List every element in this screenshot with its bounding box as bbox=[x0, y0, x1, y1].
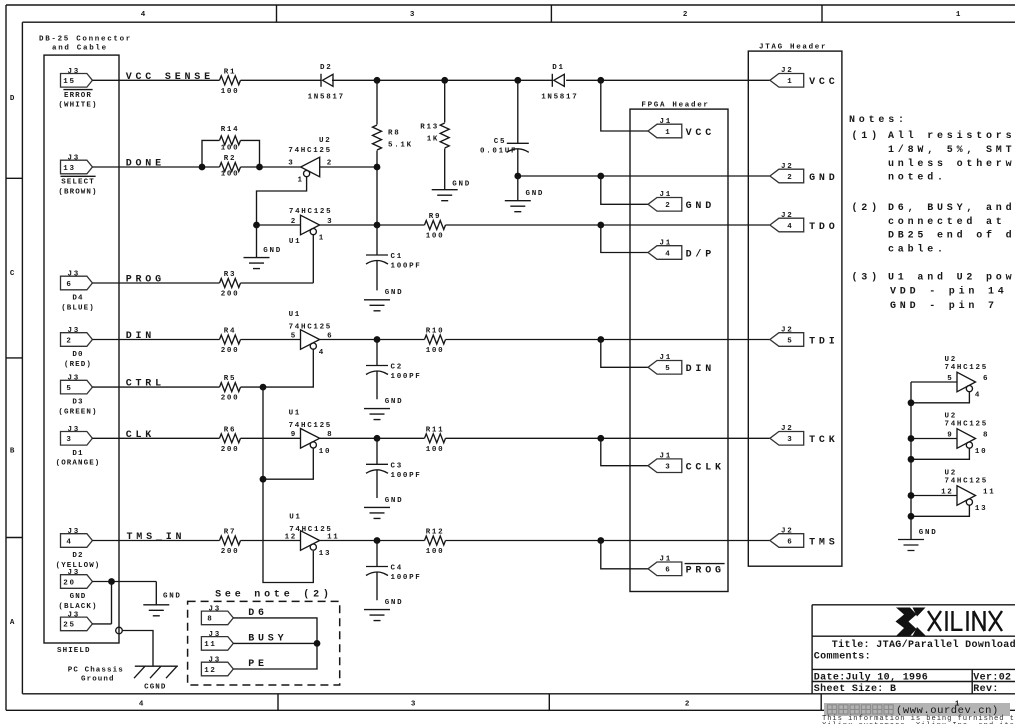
svg-text:4: 4 bbox=[319, 349, 325, 357]
svg-text:12: 12 bbox=[285, 533, 297, 541]
svg-text:9: 9 bbox=[947, 431, 953, 439]
svg-text:200: 200 bbox=[221, 548, 240, 556]
wire U2 spare rail bbox=[911, 382, 957, 540]
watermark band bbox=[824, 703, 1010, 717]
connector pin J1 pin 6 PROG bbox=[648, 556, 725, 577]
svg-text:2: 2 bbox=[665, 202, 671, 210]
wire CLK output row to TCK bbox=[320, 437, 770, 439]
border zone letters left bbox=[10, 95, 16, 627]
label FPGA Header bbox=[641, 102, 709, 110]
net label DONE bbox=[126, 159, 165, 170]
wire GND rail bbox=[518, 175, 770, 177]
op-amp U2 spare buffer 74HC125 gate 12/11/13 bbox=[941, 470, 995, 514]
resistor R7 bbox=[220, 529, 241, 557]
op-amp U1 buffer 74HC125 PROG gate 2/3/1 bbox=[289, 208, 333, 246]
wire GND drop to FPGA J1 pin2 bbox=[601, 176, 648, 204]
svg-text:VCC SENSE: VCC SENSE bbox=[126, 72, 214, 83]
svg-text:R2: R2 bbox=[224, 155, 236, 163]
svg-text:12: 12 bbox=[204, 667, 216, 675]
net label VCC_SENSE bbox=[126, 72, 214, 83]
svg-text:See note (2): See note (2) bbox=[215, 589, 333, 601]
svg-text:SHIELD: SHIELD bbox=[57, 647, 91, 655]
svg-text:3: 3 bbox=[411, 701, 417, 709]
connector pin J3 pin 15 bbox=[58, 68, 97, 110]
svg-text:connected at the: connected at the bbox=[888, 216, 1015, 228]
node BUSY junction bbox=[314, 640, 321, 647]
svg-text:5: 5 bbox=[291, 332, 297, 340]
capacitor C5 0.01UF bbox=[480, 80, 529, 176]
svg-text:GND: GND bbox=[385, 599, 404, 607]
svg-text:10: 10 bbox=[975, 448, 987, 456]
svg-text:74HC125: 74HC125 bbox=[289, 526, 332, 534]
resistor R11 bbox=[425, 426, 446, 454]
wire enable bus vertical bbox=[263, 387, 313, 582]
wire U1 PROG input from gnd node bbox=[257, 224, 301, 226]
svg-text:U1: U1 bbox=[289, 311, 301, 319]
svg-text:TDO: TDO bbox=[809, 222, 838, 233]
svg-text:GND: GND bbox=[686, 201, 715, 212]
svg-text:8: 8 bbox=[207, 616, 213, 624]
connector pin J3 pin 25 bbox=[61, 611, 93, 630]
svg-text:R8: R8 bbox=[388, 130, 400, 138]
svg-text:13: 13 bbox=[63, 165, 75, 173]
svg-text:U1: U1 bbox=[289, 410, 301, 418]
wire PROG row (R3 to U1 enable riser) bbox=[92, 235, 313, 283]
diode D1 1N5817 bbox=[541, 64, 578, 101]
svg-text:Comments:: Comments: bbox=[814, 651, 871, 662]
node J3 pin20 junction bbox=[108, 578, 115, 585]
svg-text:Notes:: Notes: bbox=[849, 115, 908, 126]
svg-text:2: 2 bbox=[66, 337, 72, 345]
capacitor C1 100PF bbox=[366, 225, 422, 290]
node x377 DONE bbox=[374, 164, 381, 171]
op-amp U2 spare buffer 74HC125 gate 9/8/10 bbox=[945, 413, 990, 457]
wire U1 CLK enable to bus bbox=[263, 448, 313, 479]
border zone labels top bbox=[141, 11, 962, 19]
svg-text:PROG: PROG bbox=[686, 566, 725, 577]
svg-text:DIN: DIN bbox=[686, 364, 715, 375]
wire TDO drop to FPGA J1 pin4 D/P bbox=[601, 225, 648, 253]
ground below R13 bbox=[432, 181, 471, 201]
svg-text:1: 1 bbox=[298, 177, 304, 185]
svg-text:GND: GND bbox=[809, 173, 838, 184]
svg-text:GND: GND bbox=[385, 289, 404, 297]
svg-text:0.01UF: 0.01UF bbox=[480, 148, 517, 156]
svg-text:1N5817: 1N5817 bbox=[541, 93, 578, 101]
label CGND bbox=[144, 684, 166, 692]
wire DIN output row to TDI bbox=[320, 339, 770, 341]
svg-text:GND: GND bbox=[919, 529, 938, 537]
svg-text:5: 5 bbox=[66, 385, 72, 393]
resistor R1 bbox=[220, 68, 241, 96]
label SHIELD bbox=[57, 647, 91, 655]
svg-text:U2: U2 bbox=[319, 137, 331, 145]
svg-text:200: 200 bbox=[221, 347, 240, 355]
svg-text:100: 100 bbox=[426, 233, 445, 241]
title block bbox=[812, 605, 1015, 694]
svg-text:1: 1 bbox=[319, 235, 325, 243]
connector pin J2 pin 2 GND bbox=[770, 163, 839, 184]
svg-text:PC Chassis: PC Chassis bbox=[68, 667, 124, 675]
svg-text:1N5817: 1N5817 bbox=[308, 94, 345, 102]
svg-text:DONE: DONE bbox=[126, 159, 165, 170]
resistor R8 bbox=[373, 80, 413, 167]
svg-text:R14: R14 bbox=[221, 126, 240, 134]
svg-text:SELECT: SELECT bbox=[61, 179, 95, 187]
svg-text:3: 3 bbox=[410, 11, 416, 19]
svg-text:D0: D0 bbox=[72, 351, 83, 359]
wire TMS drop to FPGA J1 pin6 PROG bbox=[601, 541, 648, 569]
svg-text:74HC125: 74HC125 bbox=[289, 422, 332, 430]
svg-text:D3: D3 bbox=[72, 399, 83, 407]
svg-text:A: A bbox=[10, 619, 16, 627]
svg-text:D6, BUSY, and PE: D6, BUSY, and PE bbox=[888, 202, 1015, 214]
svg-text:GND: GND bbox=[452, 181, 471, 189]
svg-text:3: 3 bbox=[787, 436, 793, 444]
svg-text:100: 100 bbox=[426, 446, 445, 454]
net label DIN bbox=[126, 331, 155, 342]
svg-text:(ORANGE): (ORANGE) bbox=[56, 460, 101, 468]
svg-text:D/P: D/P bbox=[686, 248, 715, 260]
svg-text:2: 2 bbox=[327, 160, 333, 168]
wire shield to chassis ground bbox=[122, 631, 153, 667]
svg-text:and Cable: and Cable bbox=[52, 45, 108, 53]
svg-text:Ver:02: Ver:02 bbox=[973, 672, 1011, 683]
svg-text:4: 4 bbox=[975, 392, 981, 400]
wire U2 DONE enable to U1 PROG input node bbox=[257, 177, 307, 225]
svg-text:10: 10 bbox=[319, 448, 331, 456]
ground below spare rail bbox=[898, 529, 937, 551]
label PC Chassis Ground bbox=[68, 667, 124, 684]
connector pin J1 pin 4 D/P bbox=[648, 239, 715, 260]
svg-text:Rev:: Rev: bbox=[973, 684, 998, 695]
svg-text:100PF: 100PF bbox=[391, 574, 422, 582]
svg-text:8: 8 bbox=[983, 431, 989, 439]
svg-text:ERROR: ERROR bbox=[64, 92, 92, 100]
op-amp U1 buffer 74HC125 TMS gate 12/11/13 bbox=[285, 514, 340, 559]
wire TMS_IN row bbox=[92, 540, 300, 542]
svg-text:unless otherwise: unless otherwise bbox=[888, 158, 1015, 170]
wire J3 pin20 to gnd bbox=[92, 582, 156, 605]
op-amp U2 buffer 74HC125 DONE (left facing) gate 2/3/1 bbox=[288, 137, 333, 185]
svg-text:4: 4 bbox=[787, 223, 793, 231]
svg-text:(2): (2) bbox=[852, 202, 881, 214]
svg-text:5.1K: 5.1K bbox=[388, 142, 413, 150]
svg-text:R7: R7 bbox=[224, 529, 236, 537]
svg-text:DB-25 Connector: DB-25 Connector bbox=[39, 36, 132, 44]
net label CLK bbox=[126, 430, 155, 441]
svg-text:D4: D4 bbox=[72, 295, 83, 303]
node GND rail junctions bbox=[514, 173, 604, 180]
net label PROG bbox=[126, 275, 165, 286]
svg-text:U1 and U2 power: U1 and U2 power bbox=[888, 272, 1015, 284]
svg-text:U1: U1 bbox=[289, 238, 301, 246]
svg-text:13: 13 bbox=[975, 505, 987, 513]
label See note (2) bbox=[215, 589, 333, 601]
svg-text:3: 3 bbox=[665, 464, 671, 472]
svg-text:11: 11 bbox=[204, 641, 216, 649]
svg-text:CGND: CGND bbox=[144, 684, 166, 692]
connector pin J3 pin 11 (BUSY) bbox=[201, 631, 287, 650]
dashed box see note 2 bbox=[188, 601, 340, 685]
ground at J3 pin20 bbox=[143, 593, 181, 616]
svg-text:1: 1 bbox=[665, 129, 671, 137]
resistor R13 bbox=[420, 80, 449, 189]
wire TDI drop to FPGA J1 pin5 DIN bbox=[601, 340, 648, 368]
svg-text:Title: JTAG/Parallel Download: Title: JTAG/Parallel Download Cable bbox=[832, 639, 1015, 651]
connector pin J2 pin 6 TMS bbox=[770, 527, 839, 548]
svg-text:B: B bbox=[10, 448, 16, 456]
svg-text:2: 2 bbox=[683, 11, 689, 19]
svg-text:R11: R11 bbox=[426, 426, 445, 434]
svg-text:100PF: 100PF bbox=[391, 263, 422, 271]
connector pin J3 pin 12 (PE) bbox=[201, 657, 267, 676]
wire DIN row bbox=[92, 339, 300, 341]
op-amp U1 buffer 74HC125 CLK gate 9/8/10 bbox=[289, 410, 334, 456]
ground below C1 bbox=[364, 289, 403, 311]
svg-text:U2: U2 bbox=[945, 470, 957, 478]
svg-text:100: 100 bbox=[426, 347, 445, 355]
svg-text:R6: R6 bbox=[224, 426, 236, 434]
svg-text:R1: R1 bbox=[224, 68, 236, 76]
wire U1 DIN enable riser to CTRL row bbox=[241, 349, 314, 387]
svg-text:C: C bbox=[10, 270, 16, 278]
svg-text:(BLUE): (BLUE) bbox=[61, 304, 95, 312]
svg-text:74HC125: 74HC125 bbox=[288, 147, 331, 155]
wire VCC sense row bbox=[92, 79, 770, 81]
wire FPGA VCC feed bbox=[601, 80, 648, 131]
node CLK enable junction bbox=[260, 476, 267, 483]
node spare rail junctions bbox=[908, 399, 915, 519]
capacitor C4 100PF bbox=[366, 541, 422, 601]
svg-text:D2: D2 bbox=[72, 552, 83, 560]
svg-text:3: 3 bbox=[66, 436, 72, 444]
svg-text:74HC125: 74HC125 bbox=[945, 421, 988, 429]
svg-text:100: 100 bbox=[221, 170, 240, 178]
svg-text:CLK: CLK bbox=[126, 430, 155, 441]
resistor R5 bbox=[220, 375, 241, 403]
svg-text:74HC125: 74HC125 bbox=[289, 323, 332, 331]
svg-text:20: 20 bbox=[63, 579, 75, 587]
ground below C5 node bbox=[505, 176, 544, 212]
connector pin J1 pin 1 VCC bbox=[648, 118, 715, 139]
svg-text:(1): (1) bbox=[852, 130, 881, 142]
node DIN row junctions bbox=[374, 336, 605, 343]
svg-text:C1: C1 bbox=[391, 253, 403, 261]
connector pin J3 pin 3 bbox=[56, 426, 101, 468]
wire D6/BUSY/PE tie bbox=[233, 618, 317, 669]
wire DONE node to PROG node bbox=[376, 167, 378, 225]
svg-text:200: 200 bbox=[221, 446, 240, 454]
node DONE junctions bbox=[199, 164, 263, 171]
connector pin J3 pin 6 bbox=[61, 271, 95, 313]
svg-text:100: 100 bbox=[426, 548, 445, 556]
net label CTRL bbox=[126, 379, 165, 390]
resistor R4 bbox=[220, 328, 241, 356]
svg-text:25: 25 bbox=[63, 622, 75, 630]
svg-text:C5: C5 bbox=[494, 138, 506, 146]
connector pin J3 pin 5 bbox=[58, 375, 97, 417]
fine print disclaimer bbox=[822, 715, 1015, 724]
resistor R12 bbox=[425, 529, 446, 557]
svg-text:D1: D1 bbox=[552, 64, 564, 72]
svg-text:R5: R5 bbox=[224, 375, 236, 383]
svg-text:U2: U2 bbox=[945, 356, 957, 364]
svg-text:R10: R10 bbox=[426, 328, 445, 336]
FPGA header box J1 bbox=[630, 109, 728, 591]
svg-text:6: 6 bbox=[66, 281, 72, 289]
svg-text:12: 12 bbox=[941, 488, 953, 496]
svg-text:C2: C2 bbox=[391, 364, 403, 372]
title block text bbox=[814, 639, 1015, 695]
svg-text:TMS: TMS bbox=[809, 537, 838, 548]
svg-text:D: D bbox=[10, 95, 16, 103]
ground at U1 PROG input bbox=[244, 225, 282, 269]
svg-text:1: 1 bbox=[955, 701, 961, 709]
resistor R10 bbox=[425, 328, 446, 356]
capacitor C3 100PF bbox=[366, 438, 422, 498]
ground below C2 bbox=[364, 398, 403, 419]
svg-text:15: 15 bbox=[63, 78, 75, 86]
connector pin J1 pin 5 DIN bbox=[648, 354, 715, 375]
JTAG header box J2 bbox=[748, 51, 842, 566]
svg-text:GND: GND bbox=[70, 593, 87, 601]
op-amp U2 spare buffer 74HC125 gate 5/6/4 bbox=[945, 356, 990, 400]
Xilinx logo bbox=[896, 608, 1003, 637]
svg-text:TCK: TCK bbox=[809, 435, 838, 446]
node PROG row junctions bbox=[374, 222, 605, 229]
op-amp U1 buffer 74HC125 DIN gate 5/6/4 bbox=[289, 311, 334, 357]
svg-text:1: 1 bbox=[787, 78, 793, 86]
wire U2 spare enable 13 bbox=[911, 505, 969, 516]
notes text block bbox=[849, 115, 1015, 312]
svg-text:(3): (3) bbox=[852, 272, 881, 284]
wire CTRL row bbox=[92, 386, 219, 388]
capacitor C2 100PF bbox=[366, 340, 422, 400]
wire R14 parallel loop bbox=[202, 140, 260, 167]
resistor R6 bbox=[220, 426, 241, 454]
chassis ground symbol CGND bbox=[134, 666, 178, 678]
wire U1 PROG output row to TDO bbox=[320, 224, 770, 226]
svg-text:9: 9 bbox=[291, 431, 297, 439]
svg-text:noted.: noted. bbox=[888, 172, 947, 184]
svg-text:1K: 1K bbox=[427, 135, 439, 143]
svg-text:DIN: DIN bbox=[126, 331, 155, 342]
node shield connection circle bbox=[116, 627, 123, 634]
svg-text:Sheet Size: B: Sheet Size: B bbox=[814, 683, 897, 695]
svg-text:U1: U1 bbox=[289, 514, 301, 522]
resistor R14 bbox=[220, 126, 241, 152]
wire TMS output row to JTAG TMS bbox=[320, 540, 770, 542]
border zone ticks bbox=[6, 5, 822, 710]
svg-text:2: 2 bbox=[685, 701, 691, 709]
label JTAG Header bbox=[759, 43, 827, 51]
svg-text:JTAG Header: JTAG Header bbox=[759, 43, 827, 51]
svg-text:74HC125: 74HC125 bbox=[289, 208, 332, 216]
svg-text:VDD - pin 14: VDD - pin 14 bbox=[890, 285, 1008, 297]
connector pin J3 pin 4 bbox=[56, 528, 101, 570]
connector pin J2 pin 3 TCK bbox=[770, 425, 839, 446]
svg-text:(BLACK): (BLACK) bbox=[58, 603, 97, 611]
wire U2 spare enable 10 bbox=[911, 448, 969, 459]
svg-text:TDI: TDI bbox=[809, 336, 838, 347]
connector pin J3 pin 8 (D6) bbox=[201, 605, 267, 624]
ground below C3 bbox=[364, 497, 403, 518]
node U1 PROG input bbox=[253, 222, 260, 229]
svg-text:C3: C3 bbox=[391, 462, 403, 470]
svg-text:74HC125: 74HC125 bbox=[945, 478, 988, 486]
svg-text:GND: GND bbox=[526, 190, 545, 198]
svg-text:D1: D1 bbox=[72, 450, 83, 458]
svg-text:GND - pin 7: GND - pin 7 bbox=[890, 300, 998, 312]
svg-text:100PF: 100PF bbox=[391, 472, 422, 480]
node VCC rail junctions bbox=[374, 77, 605, 84]
svg-text:VCC: VCC bbox=[809, 77, 838, 88]
svg-text:100: 100 bbox=[221, 144, 240, 152]
node CLK row junctions bbox=[374, 435, 605, 442]
border zone labels bottom bbox=[139, 701, 961, 709]
connector pin J1 pin 2 GND bbox=[648, 191, 715, 212]
label DB-25 Connector and Cable bbox=[39, 36, 132, 53]
svg-text:5: 5 bbox=[947, 375, 953, 383]
svg-text:(BROWN): (BROWN) bbox=[58, 188, 97, 196]
svg-text:4: 4 bbox=[66, 538, 72, 546]
connector pin J3 pin 13 bbox=[58, 155, 97, 197]
connector pin J1 pin 3 CCLK bbox=[648, 453, 725, 474]
svg-text:3: 3 bbox=[288, 160, 294, 168]
svg-text:GND: GND bbox=[263, 247, 282, 255]
wire TCK drop to FPGA J1 pin3 CCLK bbox=[601, 438, 648, 465]
svg-text:Ground: Ground bbox=[81, 676, 115, 684]
svg-text:PROG: PROG bbox=[126, 275, 165, 286]
connector pin J2 pin 4 TDO bbox=[770, 212, 839, 233]
svg-text:GND: GND bbox=[163, 593, 182, 601]
svg-text:TMS_IN: TMS_IN bbox=[127, 532, 186, 543]
resistor R3 bbox=[220, 271, 241, 299]
svg-text:200: 200 bbox=[221, 395, 240, 403]
svg-text:1: 1 bbox=[956, 11, 962, 19]
resistor R2 bbox=[220, 155, 241, 178]
svg-text:U2: U2 bbox=[945, 413, 957, 421]
svg-text:200: 200 bbox=[221, 291, 240, 299]
svg-text:R3: R3 bbox=[224, 271, 236, 279]
svg-text:6: 6 bbox=[665, 567, 671, 575]
net label TMS_IN bbox=[127, 532, 186, 543]
svg-text:All resistors are: All resistors are bbox=[888, 130, 1015, 142]
wire DONE row bbox=[92, 166, 377, 168]
svg-text:R13: R13 bbox=[420, 123, 439, 131]
svg-text:CTRL: CTRL bbox=[126, 379, 165, 390]
connector pin J2 pin 1 VCC bbox=[770, 67, 839, 88]
wire J3 pin25 to pin20 node bbox=[92, 582, 111, 624]
svg-text:CCLK: CCLK bbox=[686, 463, 725, 474]
svg-text:GND: GND bbox=[385, 398, 404, 406]
node CTRL enable bus junction bbox=[260, 384, 267, 391]
svg-text:100: 100 bbox=[221, 88, 240, 96]
connector pin J3 pin 20 bbox=[58, 569, 97, 611]
svg-text:5: 5 bbox=[665, 365, 671, 373]
connector pin J3 pin 2 bbox=[61, 327, 93, 369]
svg-text:1/8W, 5%, SMT,: 1/8W, 5%, SMT, bbox=[888, 144, 1015, 156]
node TMS row junctions bbox=[374, 537, 605, 544]
svg-text:R9: R9 bbox=[429, 213, 441, 221]
svg-text:(RED): (RED) bbox=[64, 361, 92, 369]
wire CLK row bbox=[92, 437, 300, 439]
svg-text:4: 4 bbox=[665, 250, 671, 258]
ground below C4 bbox=[364, 599, 403, 620]
svg-text:R4: R4 bbox=[224, 328, 236, 336]
svg-text:VCC: VCC bbox=[686, 128, 715, 139]
